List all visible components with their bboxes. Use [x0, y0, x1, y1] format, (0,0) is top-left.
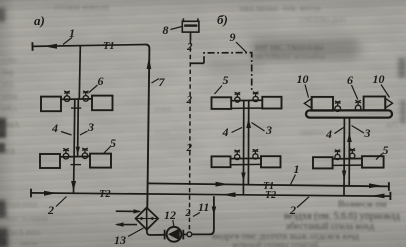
air vent above left valve (b-right lower): [335, 150, 341, 155]
radiator pair b-left lower: left radiator: [212, 156, 231, 167]
radiator on bar (left): [312, 97, 333, 111]
svg-text:б): б): [217, 12, 228, 27]
svg-text:Т2: Т2: [265, 190, 276, 201]
svg-text:5: 5: [110, 136, 116, 150]
wire T1 main (system b): [148, 183, 388, 186]
label 9: [230, 30, 236, 44]
faint text right area above T1: [300, 128, 324, 137]
end tick of T2 left: [30, 189, 32, 198]
label 2 on line (mid1): [186, 94, 193, 106]
air vent above bar valve (left): [335, 101, 341, 106]
flow arrow right on T1b (end): [369, 183, 382, 188]
air vent above left valve (upper row a): [64, 91, 70, 96]
flow arrow up on b-right supply riser: [347, 132, 352, 142]
valve b-right lower (right): [350, 153, 355, 158]
diamond internal vertical: [146, 208, 148, 229]
svg-text:8: 8: [163, 23, 169, 37]
valve on lower row a (left): [63, 153, 69, 159]
wire supply riser (a) from T1 to upper row: [79, 46, 80, 99]
network supply stub with arrow into diamond: [116, 209, 142, 213]
flow arrow left on T1: [44, 44, 58, 49]
leader for label 3 b-right: [352, 126, 365, 134]
left edge darkening band: [0, 0, 16, 247]
left edge dark blobs: [0, 8, 5, 22]
flow arrow down on b-left return riser: [241, 173, 246, 182]
svg-text:6: 6: [98, 74, 104, 88]
label 2 (system b): [289, 203, 296, 217]
svg-text:а): а): [34, 13, 45, 28]
wire diamond to pump: [147, 230, 164, 235]
flow arrow left on T2 (mid b): [222, 192, 236, 197]
leader for label 13: [128, 228, 144, 237]
label 7: [159, 75, 166, 89]
svg-text:Т1: Т1: [103, 41, 115, 52]
flow arrow up on riser 7: [147, 58, 152, 70]
label 6 (b-right): [347, 73, 353, 87]
svg-text:2: 2: [185, 208, 191, 219]
label 3 (b-right): [364, 126, 371, 140]
svg-text:5: 5: [383, 143, 389, 157]
label T1 (system b): [263, 181, 274, 192]
right edge marks: [398, 58, 406, 78]
leader for label 6a: [89, 85, 98, 93]
leader for label 5a: [104, 147, 111, 154]
label T2 (system a): [99, 189, 111, 200]
air vent above right valve (b-right lower): [350, 149, 356, 154]
faint text middle left: [4, 120, 19, 129]
valve b-left upper (right): [253, 96, 258, 101]
leader for label 8: [171, 27, 182, 30]
label 3 (system a): [87, 120, 94, 134]
wire return riser (a) to T2: [73, 157, 76, 194]
air vent above left valve (b-left upper): [235, 92, 241, 97]
top edge wavy band: [0, 0, 406, 14]
svg-text:3: 3: [364, 126, 371, 140]
leader for label 6 b-right: [352, 85, 358, 100]
svg-text:9: 9: [230, 30, 236, 44]
svg-text:2: 2: [47, 203, 54, 217]
expansion tank 8: [182, 18, 199, 32]
bottom darkening band: [0, 212, 406, 247]
pump 12 (circle with impeller): [167, 227, 182, 242]
valve on bar (right): [355, 105, 361, 111]
faint text middle column: [155, 104, 171, 113]
pipe stub under tank: [190, 32, 192, 40]
air vent above right valve (lower row a): [82, 148, 88, 153]
svg-text:10: 10: [297, 72, 309, 86]
label 10 right: [373, 72, 385, 86]
supply riser b-left column: [247, 100, 249, 185]
svg-text:4: 4: [325, 127, 332, 141]
flow arrow down on supply riser above lower row: [76, 147, 80, 155]
radiator pair lower row (system a): left radiator: [40, 154, 60, 168]
svg-text:5: 5: [223, 73, 229, 87]
air vent above right valve (b-left upper): [253, 92, 259, 97]
air vent above left valve (b-left lower): [234, 150, 240, 154]
end tick of T2 right: [389, 192, 391, 200]
svg-text:2: 2: [289, 203, 296, 217]
flow arrow down on b-right return riser: [342, 171, 347, 180]
valve b-left lower (left): [235, 154, 240, 159]
leader for label 7: [152, 79, 160, 84]
leader for label 11: [193, 213, 200, 217]
faint bleed-through text top left: [55, 2, 109, 12]
label b) section: [217, 12, 228, 27]
radiator pair b-left lower: right radiator: [261, 156, 281, 167]
label T2 (system b): [265, 190, 276, 201]
check valve circle (line 2 connection): [187, 232, 192, 237]
label 6 (system a): [98, 74, 104, 88]
radiator pair upper row (system a): right radiator: [92, 96, 113, 111]
label 11: [198, 200, 209, 214]
svg-text:2: 2: [186, 94, 193, 106]
leader for label 5 b-right: [376, 154, 383, 160]
label 4 (b-right): [325, 127, 332, 141]
flow arrow right on T1b (mid): [216, 182, 229, 187]
label 10 left: [297, 72, 309, 86]
valve b-left lower (right): [253, 154, 258, 159]
svg-text:Т2: Т2: [99, 189, 111, 200]
connecting pipe b-right lower: [333, 159, 362, 166]
flow arrow left on T2 (end b): [371, 194, 385, 199]
svg-text:1: 1: [294, 162, 300, 176]
label 2 (system a): [47, 203, 54, 217]
svg-text:3: 3: [265, 123, 272, 137]
label 1 (system a): [69, 26, 75, 40]
open triangle vent left (label 10): [304, 99, 311, 108]
connecting pipe lower row a: [60, 156, 90, 164]
pump flange tick right: [182, 230, 184, 240]
leader for label 12: [173, 220, 174, 226]
wire return riser (a) between rows: [73, 99, 76, 157]
leader for label 5 b-left: [215, 86, 223, 95]
bleed text block bottom right: [338, 200, 387, 210]
flow arrow right on T2 (a side): [44, 191, 57, 196]
wire supply riser (a) between rows: [77, 99, 80, 157]
leader for label 4 b-right: [335, 128, 344, 134]
svg-text:7: 7: [159, 75, 166, 89]
label 5 (b-left): [223, 73, 229, 87]
air vent above right valve (b-left lower): [253, 149, 259, 153]
valve on bar (left): [335, 106, 341, 112]
valve on upper row a (left): [64, 96, 70, 102]
label 13: [114, 233, 126, 247]
air vent above bar valve (right): [355, 100, 361, 105]
svg-text:13: 13: [114, 233, 126, 247]
connecting pipe b-left lower: [231, 158, 262, 164]
thick distribution bar (b-right group): [306, 110, 392, 117]
label 2 on line (mid2): [186, 142, 193, 154]
valve b-right lower (left): [335, 154, 340, 159]
label 8: [163, 23, 169, 37]
leader for label 4a: [61, 132, 72, 136]
svg-text:2: 2: [186, 142, 193, 154]
leader for label 10 left: [305, 85, 309, 98]
leader for label 4 b-left: [232, 128, 243, 133]
mixing unit 13 (diamond): [136, 208, 159, 230]
leader for label 3a: [80, 131, 88, 135]
radiator on bar (right): [364, 97, 386, 111]
end tick of T1 left: [31, 42, 33, 51]
svg-text:11: 11: [198, 200, 209, 214]
leader for label 1: [63, 38, 72, 45]
flow arrow down on corner riser: [212, 207, 217, 216]
supply riser b-right column: [348, 118, 350, 186]
svg-text:4: 4: [222, 125, 229, 139]
radiator pair lower row (system a): right radiator: [90, 154, 111, 168]
label 5 (system a): [110, 136, 116, 150]
label 1 (system b): [294, 162, 300, 176]
network return stub with arrow out of diamond: [115, 222, 137, 226]
leader for label 2a: [56, 197, 67, 207]
wire riser 7 (main riser with corner from T1): [145, 44, 149, 207]
radiator pair b-right lower: left radiator: [313, 157, 333, 168]
svg-text:4: 4: [51, 121, 58, 135]
diamond internal arrows: [137, 217, 158, 220]
valve on upper row a (right): [83, 96, 89, 102]
wire T2 return main (full width): [31, 193, 390, 196]
end tick of T1b right: [388, 182, 390, 191]
faint column left margin: [2, 56, 18, 65]
label 12: [164, 208, 176, 222]
radiator pair b-right lower: right radiator: [362, 156, 384, 167]
label 3 (b-left): [265, 123, 272, 137]
svg-text:12: 12: [164, 208, 176, 222]
valve b-left upper (left): [235, 97, 240, 102]
flow arrow up on b-left supply riser: [246, 118, 251, 128]
expansion line 2 (dashed vertical): [189, 40, 190, 232]
connecting pipe b-left upper: [231, 100, 262, 108]
air vent above right valve (upper row a): [83, 91, 89, 96]
leader for label 9: [236, 42, 247, 52]
svg-text:2: 2: [186, 41, 193, 53]
radiator pair b-left upper: right radiator: [262, 97, 281, 109]
connecting pipe upper row a: [61, 99, 92, 108]
return riser b-left column: [242, 100, 244, 196]
pump flange tick left: [164, 230, 166, 240]
leader for label 1b: [291, 175, 296, 185]
flow arrow down on return riser into T2: [71, 181, 76, 191]
return riser b-right column: [343, 118, 345, 196]
junction jog from line 2 to air line 9: [190, 62, 204, 64]
valve on lower row a (right): [82, 153, 88, 159]
faint text bottom left: [8, 200, 37, 209]
air vent above left valve (lower row a): [63, 149, 69, 154]
wire check valve to corner riser: [192, 196, 214, 234]
label 2 on line (top): [186, 41, 193, 53]
leader for label 3 b-left: [252, 123, 265, 132]
open triangle vent right (label 10): [386, 99, 393, 108]
radiator pair b-left upper: left radiator: [212, 97, 232, 109]
leader for label 10 right: [381, 85, 390, 98]
svg-text:10: 10: [373, 72, 385, 86]
leader for label 2b: [297, 197, 309, 208]
radiator pair upper row (system a): left radiator: [41, 97, 61, 112]
label 2 on line (bottom): [185, 208, 191, 219]
label T1 (system a): [103, 41, 115, 52]
wire pump to check valve: [183, 233, 187, 235]
label 4 (system a): [51, 121, 58, 135]
label 5 (b-right): [383, 143, 389, 157]
label a) section: [34, 13, 45, 28]
wire T1 supply main (system a): [33, 45, 146, 47]
label 4 (b-left): [222, 125, 229, 139]
darker smudge band top centre-right: [250, 38, 360, 60]
svg-text:3: 3: [87, 120, 94, 134]
air line 9 (dash-dot): [204, 53, 252, 91]
